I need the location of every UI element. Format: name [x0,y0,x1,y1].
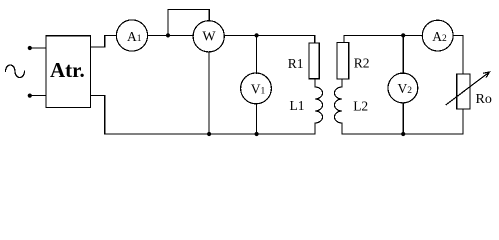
wire [462,109,464,134]
node [401,132,405,136]
wire [314,123,316,134]
wattmeter W [193,21,224,52]
resistor R2 [337,42,349,79]
svg-text:V2: V2 [398,81,413,96]
svg-text:W: W [202,29,216,44]
wire [343,35,345,42]
wire [314,35,316,43]
voltmeter V1 branch wire [256,35,258,73]
wire: primary bottom rail [91,96,315,135]
wire [30,47,46,49]
node: bottom input terminal [28,94,32,98]
ammeter A2 [422,20,453,51]
svg-text:V1: V1 [251,81,266,96]
voltmeter V2 [388,73,418,103]
ac source [6,65,25,78]
wire [341,123,343,134]
inductor L2 (secondary winding) [335,87,342,123]
svg-text:Atr.: Atr. [50,58,85,82]
wire [453,35,463,74]
svg-text:Ro: Ro [476,92,492,107]
voltmeter V2 branch wire [402,35,404,73]
svg-text:L1: L1 [290,98,305,113]
svg-text:A2: A2 [432,29,447,44]
wire [314,79,316,87]
wire: secondary top rail [344,34,422,36]
resistor R1 [309,43,319,79]
rheostat Ro [457,74,470,109]
node [166,33,170,37]
wire [30,95,46,97]
node [401,33,405,37]
node [255,33,259,37]
ammeter A1 [116,20,147,51]
svg-text:R1: R1 [288,56,304,71]
node [255,132,259,136]
wire [224,34,314,36]
wire [256,104,258,134]
wire: secondary bottom rail [342,133,463,135]
voltmeter V1 [241,73,272,104]
wire [148,34,168,36]
node: top input terminal [28,46,32,50]
wire [91,35,117,47]
node [207,132,211,136]
rheostat arrow [446,72,489,104]
wire [168,34,193,36]
autotransformer Atr [46,36,91,108]
inductor L1 (primary winding) [315,87,323,123]
wire [341,79,343,87]
wire [402,103,404,134]
svg-text:R2: R2 [354,56,370,71]
svg-text:L2: L2 [353,98,368,113]
wattmeter voltage-coil loop wire [168,10,209,36]
wire [208,52,210,134]
svg-text:A1: A1 [127,29,142,44]
